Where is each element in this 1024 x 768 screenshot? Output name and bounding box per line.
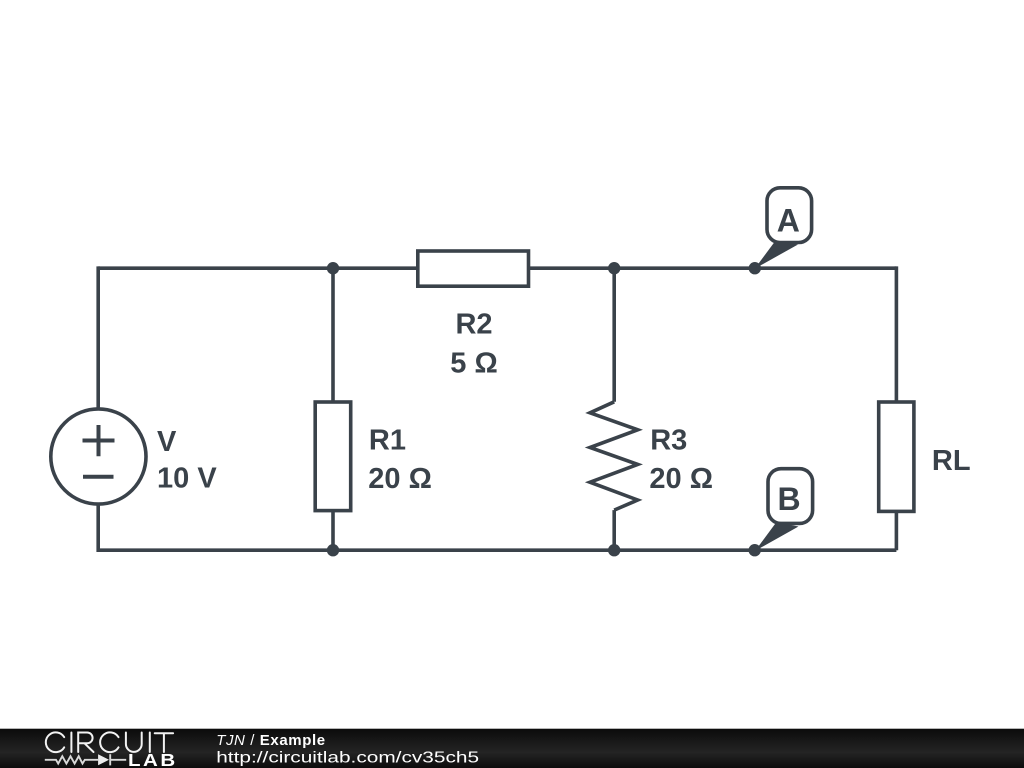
node dot top R3 [608, 262, 620, 274]
resistor R2 [418, 251, 529, 286]
node dot top R1 [327, 262, 339, 274]
wire top rail [98, 266, 896, 270]
resistor R3 [590, 402, 638, 510]
svg-text:20 Ω: 20 Ω [368, 463, 432, 495]
label RL [932, 445, 971, 477]
CircuitLab logo resistor-diode wire [45, 754, 126, 765]
svg-text:R1: R1 [369, 425, 406, 457]
svg-text:TJN / Example: TJN / Example [216, 732, 326, 749]
svg-text:RL: RL [932, 445, 971, 477]
wire left branch [96, 266, 100, 552]
label R2 value [450, 309, 497, 380]
node dot bottom R1 [327, 544, 339, 556]
svg-text:http://circuitlab.com/cv35ch5: http://circuitlab.com/cv35ch5 [216, 748, 479, 766]
footer bar [0, 729, 1024, 768]
wire R3 branch top [612, 268, 616, 402]
node dot B [749, 544, 761, 556]
CircuitLab logo LAB [128, 751, 178, 768]
voltage source V [51, 409, 146, 504]
node dot A [749, 262, 761, 274]
node B flag [755, 469, 812, 551]
resistor R1 [315, 402, 351, 511]
label V value [157, 426, 217, 495]
label R1 value [368, 425, 432, 495]
wire RL branch [895, 266, 899, 550]
svg-text:20 Ω: 20 Ω [649, 463, 713, 495]
svg-text:V: V [157, 426, 177, 458]
node A flag [755, 188, 812, 269]
resistor RL [879, 402, 914, 511]
svg-text:A: A [777, 202, 800, 238]
CircuitLab logo CIRCUIT [46, 732, 173, 752]
svg-text:B: B [777, 481, 800, 517]
svg-text:5 Ω: 5 Ω [450, 347, 497, 379]
svg-text:R2: R2 [455, 309, 492, 341]
svg-text:10 V: 10 V [157, 463, 217, 495]
svg-text:LAB: LAB [128, 751, 178, 768]
wire R3 branch bottom [612, 510, 616, 550]
CircuitLab logo diode triangle [98, 754, 109, 765]
wire R1 branch [331, 268, 335, 550]
label R3 value [649, 425, 713, 495]
wire bottom rail [98, 548, 896, 552]
svg-text:R3: R3 [650, 425, 687, 457]
footer url [216, 748, 479, 766]
node dot bottom R3 [608, 544, 620, 556]
junction dots [327, 262, 761, 556]
footer title TJN / Example [216, 732, 326, 749]
